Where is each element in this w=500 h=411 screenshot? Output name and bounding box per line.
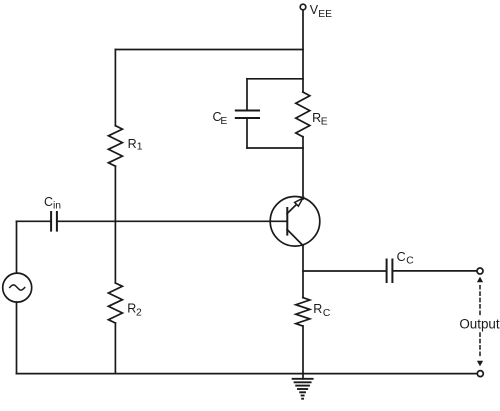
wire: CE left bottom vertical <box>246 118 248 148</box>
wire: CC to output terminal <box>392 270 477 272</box>
capacitor CE <box>236 110 259 112</box>
capacitor CC <box>386 260 388 283</box>
resistor RC <box>296 298 310 326</box>
label RC <box>313 302 331 319</box>
dashed output arrows <box>479 286 481 358</box>
wire: CE bottom branch <box>247 147 303 149</box>
wire: between R1 and R2 <box>114 166 116 283</box>
terminal VEE <box>300 4 306 10</box>
wire: R2 to bottom rail <box>114 323 116 374</box>
svg-text:C: C <box>44 195 53 209</box>
output arrowhead down <box>477 361 483 367</box>
svg-text:E: E <box>220 116 227 127</box>
svg-text:2: 2 <box>136 308 142 319</box>
label VEE <box>310 3 332 20</box>
svg-text:Output: Output <box>459 316 499 331</box>
resistor RE <box>296 92 310 137</box>
wire: RC to ground <box>302 326 304 379</box>
output terminal bottom <box>477 371 483 377</box>
wire: top horizontal rail <box>115 49 303 51</box>
emitter of Q1 with open arrow <box>287 204 297 214</box>
output arrowhead up <box>477 277 483 283</box>
svg-text:C: C <box>397 250 406 264</box>
label R2 <box>127 301 142 318</box>
label R1 <box>128 137 143 153</box>
ground <box>293 379 313 399</box>
svg-text:1: 1 <box>137 141 143 152</box>
output terminal top <box>477 268 483 274</box>
svg-text:in: in <box>53 201 61 212</box>
label CE <box>213 110 228 127</box>
wire: left rail down to source <box>16 221 18 273</box>
svg-text:R: R <box>128 137 137 151</box>
wire: VEE down to RE top <box>302 10 304 92</box>
capacitor Cin <box>50 212 52 231</box>
svg-text:R: R <box>313 302 322 316</box>
svg-text:EE: EE <box>318 9 332 20</box>
resistor R1 <box>108 126 122 167</box>
label CC <box>397 250 415 267</box>
AC source <box>3 273 32 302</box>
wire: output horizontal to CC <box>303 270 387 272</box>
resistor R2 <box>108 283 122 323</box>
wire: left vertical from top rail to R1 <box>114 50 116 126</box>
transistor Q1 base bar <box>286 208 288 235</box>
transistor Q1 body <box>270 197 320 247</box>
svg-text:C: C <box>406 256 414 267</box>
label RE <box>312 111 328 128</box>
svg-text:R: R <box>127 301 136 315</box>
wire: RE bottom to transistor emitter top <box>302 137 304 199</box>
collector of Q1 <box>287 229 303 245</box>
wire: source to bottom rail <box>16 302 18 374</box>
wire: input horizontal left segment to Cin <box>17 220 52 222</box>
svg-text:E: E <box>321 117 328 128</box>
wire: bottom rail <box>17 373 478 375</box>
label Cin <box>44 195 61 212</box>
wire: CE top branch <box>247 78 303 80</box>
svg-text:C: C <box>323 308 331 319</box>
wire: Cin to transistor base <box>57 220 287 222</box>
wire: collector down <box>302 246 304 298</box>
wire: CE left top vertical <box>246 79 248 111</box>
